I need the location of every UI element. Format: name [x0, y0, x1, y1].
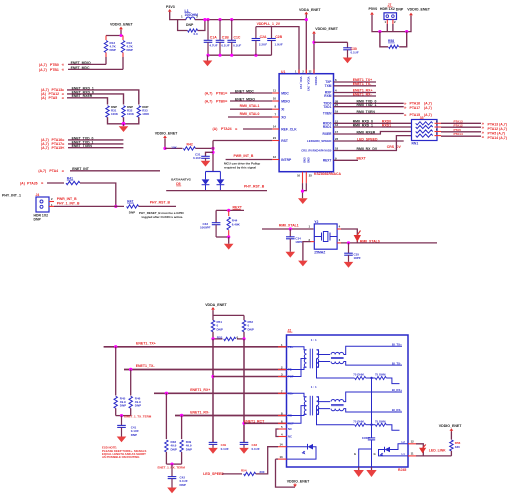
svg-text:18PF: 18PF	[295, 240, 302, 244]
svg-text:LED_LINK: LED_LINK	[429, 449, 446, 453]
svg-text:16: 16	[297, 174, 300, 178]
junction gnd rail C2A	[254, 54, 257, 57]
wire LED_SPEED stub	[334, 140, 404, 142]
svg-text:XI: XI	[281, 108, 284, 112]
capacitor C49 0.1UF	[209, 441, 218, 443]
svg-text:VDDA_3V3: VDDA_3V3	[307, 77, 311, 92]
svg-text:DNP: DNP	[120, 404, 126, 408]
svg-text:INTRP: INTRP	[281, 158, 292, 162]
pin 11 of J2	[408, 455, 416, 457]
pin GND2	[305, 172, 307, 183]
capacitor C30 0.1UF	[347, 42, 349, 48]
wire ground rail under caps	[208, 54, 272, 56]
junction rail-C1B	[218, 18, 221, 21]
svg-text:1 : 1: 1 : 1	[311, 385, 317, 389]
ferrite bead L1	[186, 17, 195, 20]
wire R13 to ENET_MDIO	[105, 57, 107, 64]
wire ENET1_RX+ stub	[334, 92, 377, 94]
pin 3 TCT of J2	[278, 376, 287, 378]
svg-text:0.1UF: 0.1UF	[193, 156, 201, 160]
ground shield 1	[358, 467, 360, 470]
junction header left	[378, 30, 381, 33]
svg-text:PTB1: PTB1	[216, 91, 225, 95]
wire ENET1_RX- stub	[334, 95, 377, 97]
wire ENET_MDIO to pin10	[230, 100, 272, 102]
svg-text:DNP: DNP	[248, 327, 254, 331]
svg-text:«: «	[225, 99, 228, 104]
svg-text:TXM: TXM	[325, 84, 332, 88]
capacitor C34 18PF	[289, 229, 291, 237]
svg-text:2: 2	[51, 197, 53, 201]
wire RN1 out RXER	[435, 131, 442, 133]
svg-text:DNP: DNP	[186, 447, 192, 451]
wire RMII_RXD_1 to RN1	[334, 126, 412, 128]
wire Y2 pin4 to XTAL0	[337, 228, 341, 230]
wire VDDA to R51	[212, 310, 214, 320]
svg-text:(A,7): (A,7)	[205, 91, 213, 95]
svg-text:C1A: C1A	[210, 36, 217, 40]
ground under C31	[201, 161, 211, 167]
svg-text:DNP: DNP	[396, 8, 404, 12]
svg-text:(A,7): (A,7)	[38, 169, 46, 173]
wire VDDIO down to U1 pin3	[313, 34, 315, 74]
wire P3V3 rail to VDDA junction	[205, 19, 306, 21]
wire R12 to ENET_MDC	[122, 57, 124, 69]
svg-text:10: 10	[273, 97, 277, 101]
svg-text:BI_TX+: BI_TX+	[392, 342, 402, 346]
svg-text:24: 24	[273, 136, 277, 140]
wire header pin1 PHY net	[49, 205, 54, 207]
svg-text:RXD1: RXD1	[323, 125, 332, 129]
svg-text:RN1: RN1	[412, 141, 419, 145]
svg-text:VDDPLL_1_2V: VDDPLL_1_2V	[257, 22, 281, 26]
svg-text:(A): (A)	[41, 96, 46, 100]
svg-text:0.1UF: 0.1UF	[221, 447, 229, 451]
junction gnd rail C1A	[206, 54, 209, 57]
svg-text:(A): (A)	[20, 181, 25, 185]
junction gnd pins	[301, 190, 304, 193]
ground under Y2 pin2	[298, 261, 308, 267]
svg-text:19: 19	[335, 110, 339, 114]
svg-text:VDDIO: VDDIO	[314, 77, 318, 87]
power symbol VDDIO_ENET header	[409, 13, 413, 16]
junction RCT-R53	[242, 337, 245, 340]
ground under C42	[167, 488, 177, 494]
svg-text:75 OHM: 75 OHM	[375, 419, 386, 423]
wire VDDA_ENET down to U1	[305, 15, 307, 74]
svg-text:1: 1	[308, 225, 310, 229]
svg-text:MDC: MDC	[281, 91, 289, 95]
svg-text:C2A: C2A	[260, 35, 267, 39]
svg-text:75 OHM: 75 OHM	[353, 373, 364, 377]
capacitor C48 0.1UF	[240, 441, 249, 443]
svg-text:«: «	[62, 95, 65, 100]
junction VDDIO-C30	[312, 41, 315, 44]
wire RMII_TXEN	[334, 113, 404, 115]
wire R51 to TCT	[212, 332, 214, 339]
svg-text:LEDGRN_SPEED: LEDGRN_SPEED	[307, 139, 332, 143]
svg-text:8: 8	[274, 105, 276, 109]
svg-text:25MHZ: 25MHZ	[314, 251, 325, 255]
svg-text:C2B: C2B	[275, 35, 282, 39]
wire REXT bottom	[216, 236, 229, 238]
capacitor C41 0.1UF DNP	[121, 416, 123, 426]
pin 1 TD+ of J2	[278, 346, 287, 348]
wire PTA26 to header net	[80, 183, 116, 206]
junction RX- term	[180, 414, 183, 417]
svg-text:23: 23	[335, 137, 339, 141]
svg-text:(A,7): (A,7)	[39, 68, 47, 72]
resistor R58 under header	[380, 32, 388, 47]
svg-text:VDDA_ENET: VDDA_ENET	[299, 8, 321, 12]
junction TX term cap	[120, 414, 123, 417]
svg-text:RXER: RXER	[323, 132, 333, 136]
svg-text:18PF: 18PF	[354, 256, 361, 260]
capacitor C42 0.1UF DNP	[171, 464, 173, 477]
svg-text:100K: 100K	[111, 112, 119, 116]
wire LED_SPEED to J2 pin14	[256, 447, 278, 474]
junction REXT gnd	[227, 235, 230, 238]
wire RN1 out CRS_DV	[435, 135, 442, 137]
wire ENET1_TCT to J2	[213, 376, 287, 378]
svg-text:DNP: DNP	[129, 211, 135, 215]
svg-text:1: 1	[385, 20, 387, 24]
resistor R33 100K DNP	[137, 106, 140, 118]
svg-text:13: 13	[273, 155, 277, 159]
wire LED_LINK	[416, 444, 423, 456]
wire RN1 out RXD1	[435, 126, 442, 128]
junction RST-R42	[211, 147, 214, 150]
LED green inside J2 left	[287, 446, 308, 448]
node ENET_1_TX_TERM	[115, 408, 117, 415]
wire ENET1_RCT to J2	[244, 422, 287, 424]
wire PWR_INT_B	[226, 159, 273, 161]
wire RN1 out RXD0	[435, 122, 442, 124]
svg-text:PTA15: PTA15	[52, 146, 63, 150]
svg-text:13: 13	[335, 123, 339, 127]
wire RMII_TXD_1	[334, 106, 404, 108]
resistor R44 6.49K	[228, 210, 230, 216]
svg-text:18: 18	[335, 147, 339, 151]
svg-text:(A): (A)	[213, 127, 218, 131]
pin 12 of J2	[408, 443, 416, 445]
wire header pin1 down	[386, 24, 388, 32]
svg-text:R42: R42	[187, 142, 193, 146]
svg-text:(A,7): (A,7)	[41, 146, 49, 150]
wire pullup top rail	[106, 35, 123, 37]
svg-text:U1: U1	[281, 70, 285, 74]
svg-text:0.1UF: 0.1UF	[351, 51, 359, 55]
svg-text:«: «	[62, 145, 65, 150]
wire Y2 pin2 to ground	[311, 241, 315, 243]
pin 8 RD- of J2	[278, 415, 287, 417]
wire ENET1_TX- stub	[334, 85, 377, 87]
junction rail-bypass	[203, 18, 206, 21]
svg-text:TXEN: TXEN	[323, 112, 332, 116]
svg-text:required by this signal: required by this signal	[224, 165, 256, 169]
resistor R56 330	[450, 431, 452, 439]
wire VDDIO to C30	[314, 41, 348, 43]
junction header right	[405, 30, 408, 33]
svg-text:330: 330	[455, 445, 460, 449]
svg-text:RXM: RXM	[324, 94, 331, 98]
svg-text:L2: L2	[402, 440, 406, 444]
svg-text:PHY_1_INT_B: PHY_1_INT_B	[57, 202, 80, 206]
svg-text:1000PF: 1000PF	[200, 226, 211, 230]
svg-text:C1C: C1C	[234, 36, 241, 40]
svg-text:P3V3: P3V3	[166, 5, 175, 9]
wire ENET_TXEN	[68, 147, 123, 149]
ground shield 2	[371, 467, 373, 470]
svg-text:(A,7): (A,7)	[424, 106, 432, 110]
svg-text:REXT: REXT	[323, 159, 332, 163]
wire P3V3 to L1 pin1	[170, 12, 186, 20]
resistor network RN1 330	[412, 120, 438, 141]
svg-text:ENET1_TX+: ENET1_TX+	[136, 342, 156, 346]
svg-text:AS POSSIBLE ON ROUTING: AS POSSIBLE ON ROUTING	[102, 455, 139, 459]
svg-text:«: «	[225, 91, 228, 96]
ground under C48	[239, 448, 249, 454]
svg-text:REXT: REXT	[357, 157, 367, 161]
ground under C41	[117, 437, 127, 443]
svg-text:33: 33	[420, 116, 424, 120]
svg-text:6.49K: 6.49K	[232, 222, 241, 226]
svg-text:ENET1_RX-: ENET1_RX-	[190, 411, 210, 415]
svg-text:HDR 1X2: HDR 1X2	[380, 7, 395, 11]
svg-text:GND: GND	[303, 157, 307, 163]
wire RMII_XTAL1 to pin8	[230, 108, 272, 110]
svg-text:7: 7	[274, 113, 276, 117]
svg-text:2.2UF: 2.2UF	[259, 42, 267, 46]
ethernet PHY U1 KSZ8081RNACA	[279, 74, 333, 172]
wire ENET1_TX+ stub	[334, 81, 377, 83]
svg-text:PTA16: PTA16	[410, 102, 421, 106]
svg-text:PTA17: PTA17	[410, 106, 421, 110]
junction TCT tap	[211, 375, 214, 378]
pin 2 TD- of J2	[278, 369, 287, 371]
pin 13 LED2K of J2	[278, 458, 287, 460]
svg-text:(A,7): (A,7)	[424, 113, 432, 117]
resistor R41	[47, 182, 64, 184]
RJ45 jack J2 with magnetics	[287, 335, 409, 467]
svg-text:DNP: DNP	[34, 217, 42, 221]
svg-text:10K: 10K	[171, 146, 177, 150]
svg-text:VDDIO_ENET: VDDIO_ENET	[439, 424, 462, 428]
svg-text:(A,7): (A,7)	[205, 99, 213, 103]
wire R52 to RCT	[243, 332, 245, 339]
pin 2 VDDA_3V3	[305, 70, 307, 74]
wire Y2 pin3 RMII_XTAL0	[337, 242, 341, 244]
svg-text:R54: R54	[241, 469, 247, 473]
svg-text:0.1UF: 0.1UF	[233, 43, 241, 47]
svg-text:«: «	[62, 168, 65, 173]
svg-text:PTB1: PTB1	[50, 68, 59, 72]
svg-text:PTA5: PTA5	[49, 96, 58, 100]
svg-text:VDDIO_ENET: VDDIO_ENET	[407, 8, 430, 12]
wire gnd stem	[302, 183, 304, 198]
svg-text:CRS_DV: CRS_DV	[387, 145, 402, 149]
resistors 75 OHM pair TX	[317, 359, 355, 379]
svg-text:27: 27	[335, 103, 339, 107]
svg-text:C1B: C1B	[222, 36, 229, 40]
svg-text:RST: RST	[281, 139, 288, 143]
wire PHY_RST_B diode row	[166, 190, 267, 192]
resistor R32 100K DNP	[122, 106, 125, 118]
svg-text:VDDA_ENET: VDDA_ENET	[205, 303, 227, 307]
wire ENET1_TCT vertical	[212, 339, 214, 443]
svg-text:75 OHM: 75 OHM	[375, 373, 386, 377]
junction RCT tap	[242, 422, 245, 425]
wire RX- to R49	[181, 416, 183, 440]
resistor R53 0	[213, 338, 223, 340]
svg-text:XO: XO	[281, 115, 286, 119]
junction VDDIO rst	[163, 147, 166, 150]
svg-text:PTA5 (A,7): PTA5 (A,7)	[488, 132, 505, 136]
wire R51-R52 top	[213, 314, 244, 316]
svg-text:75 OHM: 75 OHM	[353, 419, 364, 423]
svg-text:KSZ8081RNACA: KSZ8081RNACA	[314, 172, 341, 176]
svg-text:32: 32	[309, 70, 312, 74]
wire R42 to RST node	[195, 147, 213, 149]
wire gnd pins join	[303, 183, 307, 191]
wire REF_CLK	[243, 128, 272, 130]
svg-text:12: 12	[411, 440, 415, 444]
svg-text:DNP: DNP	[180, 483, 186, 487]
resistor R31 100K DNP	[106, 106, 109, 118]
svg-text:L1: L1	[402, 452, 406, 456]
svg-text:PTB0: PTB0	[216, 99, 225, 103]
svg-text:PTA26: PTA26	[27, 181, 38, 185]
wire RMII_XTAL1 to Y2	[262, 228, 314, 230]
capacitor C1A 4.7UF	[207, 20, 209, 41]
svg-text:ENET1_TX-: ENET1_TX-	[136, 364, 156, 368]
svg-text:VDDIO_ENET: VDDIO_ENET	[287, 479, 310, 483]
ground under C35	[344, 262, 354, 268]
wire ENET_INT	[70, 170, 160, 172]
wire CRS_DV to RN1	[334, 136, 412, 151]
svg-text:»: »	[482, 135, 485, 140]
wire ENET1_TX+	[104, 346, 287, 348]
wire TX- to R46	[130, 370, 132, 396]
svg-text:PHY_INT_1: PHY_INT_1	[2, 194, 21, 198]
junction gnd rail C1C	[230, 54, 233, 57]
pin 6 RCT of J2	[278, 422, 287, 424]
svg-text:25: 25	[309, 174, 313, 178]
svg-text:»: »	[404, 112, 407, 117]
svg-text:PTA14 (A,7): PTA14 (A,7)	[488, 136, 507, 140]
LED yellow inside J2 right	[390, 444, 408, 450]
svg-text:»: »	[41, 181, 44, 186]
svg-text:PTA24: PTA24	[221, 127, 232, 131]
svg-text:P5V0: P5V0	[369, 7, 378, 11]
wire ENET_RXER to R31	[67, 98, 108, 105]
svg-text:MDIO: MDIO	[281, 99, 290, 103]
svg-text:11: 11	[411, 452, 414, 456]
capacitor C1C 0.1UF	[231, 20, 233, 41]
svg-text:CRS_RV/RXD4/PHYAD0: CRS_RV/RXD4/PHYAD0	[301, 149, 332, 153]
svg-text:G: G	[374, 452, 376, 456]
svg-text:2: 2	[394, 20, 396, 24]
junction TX- term	[129, 368, 132, 371]
wire ENET_MDC to pin11	[230, 92, 272, 94]
svg-text:toggled after CLKIN is active.: toggled after CLKIN is active.	[142, 215, 184, 219]
wire RX+ to R48	[165, 393, 167, 439]
resistor R52 0 DNP	[242, 320, 245, 332]
wire ENET1_TX-	[124, 369, 287, 371]
svg-text:BI_RX-: BI_RX-	[392, 408, 402, 412]
junction XTAL1-C34	[289, 227, 292, 230]
wire PHY_RST_B to pin24	[213, 140, 272, 142]
wire ENET_RXD_1 to R33	[67, 90, 139, 105]
svg-text:17: 17	[335, 130, 339, 134]
svg-text:0.1UF: 0.1UF	[252, 447, 260, 451]
svg-text:GND: GND	[307, 157, 311, 163]
svg-text:VDDIO_ENET: VDDIO_ENET	[110, 23, 133, 27]
svg-text:0.0: 0.0	[194, 32, 199, 36]
wire ENET1_RX+	[154, 392, 287, 394]
svg-text:RMII_XTAL1: RMII_XTAL1	[279, 224, 299, 228]
ground under C49	[208, 448, 218, 454]
capacitor C35 18PF	[348, 243, 350, 253]
svg-text:5: 5	[281, 425, 283, 429]
capacitor 1000PF center	[371, 378, 373, 438]
wire J2 pin13 to VDDIO	[276, 458, 279, 460]
svg-text:VDDIO_ENET: VDDIO_ENET	[155, 132, 178, 136]
svg-text:RJ45: RJ45	[398, 468, 406, 472]
svg-text:11: 11	[273, 89, 276, 93]
svg-text:1.0UF: 1.0UF	[275, 42, 283, 46]
node ENET_1_RX_TERM	[165, 452, 167, 464]
resistors 75 OHM pair RX	[317, 406, 355, 425]
wire ENET_RXD_0 to R32	[67, 94, 124, 105]
wire TX+ to R45	[115, 347, 117, 396]
junction VDDA tap on rail	[305, 18, 308, 21]
wire RST vertical	[212, 141, 214, 172]
ground under C30	[343, 58, 353, 64]
wire pulldown rail	[108, 117, 139, 124]
junction rail-C1A	[206, 18, 209, 21]
svg-text:3: 3	[339, 238, 341, 242]
svg-text:DNP: DNP	[110, 48, 116, 52]
wire RMII_RXER to RN1	[334, 132, 412, 135]
wire L1 pin2 to rail	[195, 19, 205, 21]
svg-text:J2: J2	[287, 328, 291, 332]
wire ENET_MDIO	[68, 63, 106, 65]
junction gnd rail C1B	[218, 54, 221, 57]
svg-text:DNP: DNP	[171, 447, 177, 451]
capacitor C2A 2.2UF	[255, 27, 257, 39]
svg-text:100K: 100K	[142, 112, 150, 116]
ground under U1	[298, 198, 308, 204]
wire REXT stub	[334, 159, 359, 161]
wire PHY_RST_B stub	[139, 205, 176, 207]
wire header power rail	[372, 15, 411, 32]
svg-text:100K: 100K	[127, 112, 135, 116]
net arrow LED_LINK	[419, 448, 426, 454]
resistor R51 0 DNP	[211, 320, 214, 332]
svg-text:1 : 1: 1 : 1	[311, 338, 317, 342]
svg-text:RMII_XTAL1: RMII_XTAL1	[240, 104, 260, 108]
svg-text:NC: NC	[288, 435, 292, 439]
svg-text:(A,7): (A,7)	[424, 102, 432, 106]
svg-text:0.1UF: 0.1UF	[221, 43, 229, 47]
svg-text:1: 1	[181, 15, 183, 19]
wire RMII_TXD_0	[334, 102, 404, 104]
svg-text:PTB0: PTB0	[50, 63, 59, 67]
pins 4 5 of J2 tied loop	[279, 428, 287, 430]
resistor R12 4.7K DNP	[122, 36, 124, 41]
svg-text:4: 4	[339, 225, 341, 229]
